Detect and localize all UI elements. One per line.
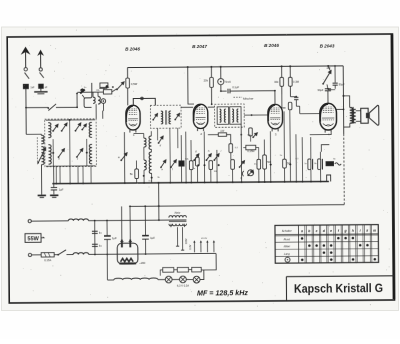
IF1 trimmer right — [174, 113, 179, 120]
heater wire d — [200, 270, 204, 280]
IF1 coil B — [169, 111, 171, 124]
wire pot top — [328, 66, 330, 70]
svg-text:B 2043: B 2043 — [320, 44, 335, 49]
RF coupling loop — [101, 99, 106, 104]
table row line 2 — [275, 240, 378, 243]
svg-text:h: h — [352, 229, 354, 233]
table column line 6 — [341, 225, 343, 263]
antenna A2 series cap — [39, 84, 44, 88]
tuner coil L2 — [89, 122, 92, 137]
mains terminal N — [28, 253, 31, 256]
mains wire top — [31, 220, 68, 222]
fuse 0,15A — [41, 253, 54, 258]
resistor af3 — [257, 159, 261, 169]
junction extra e — [76, 93, 78, 95]
antenna coil arrow — [37, 148, 46, 164]
junction B+ meter — [220, 66, 222, 68]
meter 5mA circle — [218, 79, 224, 85]
wire tone B — [319, 152, 321, 182]
padder arrow c — [76, 149, 83, 158]
wire x181 lower — [180, 166, 182, 182]
junction mains6 — [145, 253, 147, 255]
wire det2 — [196, 166, 198, 182]
mains terminal L — [28, 220, 31, 223]
ground symbol antenna coil — [38, 195, 46, 197]
padder arrow b — [58, 149, 65, 158]
svg-text:0,15A: 0,15A — [44, 258, 51, 262]
resistor det1 — [189, 161, 193, 170]
junction tuner mid right — [86, 152, 88, 154]
heater wire c — [186, 278, 193, 280]
resistor 0,3M — [288, 77, 292, 86]
svg-text:20k: 20k — [204, 79, 209, 83]
antenna A1 jack circle — [24, 68, 27, 71]
tube V4 B2043 — [320, 103, 337, 130]
lamp resistor box 3 — [192, 267, 202, 272]
transformer secondary — [169, 224, 187, 226]
resistor LW — [218, 133, 226, 137]
earth terminal bar — [34, 92, 47, 94]
wire OT feed — [343, 96, 349, 108]
filter cap 5n upper — [92, 231, 98, 233]
wire V2 to IF2 — [208, 106, 215, 108]
antenna A1 switch — [25, 73, 30, 79]
wire tone A — [310, 137, 312, 181]
heater wire a — [158, 279, 165, 281]
junction extra j — [258, 181, 260, 183]
lamp resistor box 1 — [163, 268, 174, 273]
output transformer primary — [350, 108, 353, 124]
wire x186 — [185, 132, 187, 183]
RF cluster left bend — [84, 83, 92, 108]
wire V2 anode — [188, 67, 194, 104]
tone cap block — [326, 162, 334, 166]
mains tap 110 — [181, 227, 184, 250]
svg-text:1µF: 1µF — [59, 188, 64, 192]
svg-text:0,5M: 0,5M — [131, 82, 138, 86]
tuner bottom wire — [46, 165, 95, 167]
svg-text:1µF: 1µF — [150, 236, 155, 240]
svg-text:30µF: 30µF — [317, 88, 323, 92]
wire V3 cathode — [269, 131, 271, 182]
svg-text:b: b — [308, 229, 310, 233]
junction extra d — [295, 96, 297, 98]
wire AF to V4 grid — [300, 113, 320, 115]
junction rect out — [144, 205, 146, 207]
wire RF coils down to tuner box — [96, 103, 103, 118]
osc trimmer d — [158, 136, 164, 144]
table contact dot — [315, 244, 318, 247]
coupling cap 0,1uF — [221, 89, 230, 94]
scan speckle noise — [12, 29, 390, 307]
heater tap 4 — [213, 240, 215, 252]
wire pot bottom — [326, 84, 329, 88]
mains switch — [57, 250, 66, 256]
junction mains5 — [106, 253, 108, 255]
line filter vertical — [94, 221, 96, 255]
wire OT to speaker top — [356, 110, 361, 112]
svg-text:0,15M: 0,15M — [247, 150, 254, 153]
resistor af5 — [283, 159, 287, 168]
table header underline — [275, 234, 378, 236]
tuner pack dashed box — [45, 119, 97, 167]
junction bus — [82, 183, 84, 185]
switch arrow det3 — [213, 154, 219, 161]
svg-text:0,3M: 0,3M — [293, 80, 299, 84]
junction extra n — [310, 181, 312, 183]
wire corner top right — [99, 86, 107, 88]
resistor 30k — [280, 77, 284, 86]
wire IF3b drop — [289, 66, 291, 77]
RF coil stubs — [93, 92, 98, 97]
heater tap 2 — [200, 240, 202, 252]
mains choke top — [68, 219, 88, 221]
wave switch black wedges — [80, 88, 86, 94]
svg-text:Lang: Lang — [284, 252, 290, 256]
svg-text:Rund: Rund — [284, 237, 291, 241]
antenna A1 series cap — [23, 84, 28, 89]
wire x181 upper — [180, 135, 182, 161]
output transformer secondary — [353, 109, 356, 122]
osc coil L6 lower — [149, 152, 152, 173]
mains wire bottom c — [89, 253, 216, 254]
wire x290 — [289, 110, 292, 181]
wire resistor stubs — [136, 160, 138, 182]
wire det4 — [210, 170, 212, 183]
mains choke bottom — [73, 253, 89, 255]
wire det top — [250, 136, 252, 142]
svg-text:Mischer: Mischer — [243, 96, 255, 100]
junction af — [289, 163, 291, 165]
junction det — [251, 114, 253, 116]
resistor 0,5M — [126, 78, 130, 88]
rectifier anode lead 1 — [121, 206, 123, 239]
junction bus — [185, 182, 187, 184]
tuner coil L1 — [48, 123, 51, 138]
table contact dot — [352, 258, 355, 261]
junction Bplus — [158, 205, 160, 207]
junction mains3 — [158, 219, 160, 221]
osc switch a — [118, 153, 127, 161]
heater wire left — [107, 279, 113, 281]
switch arrow vol — [239, 161, 245, 168]
resistor af4 50k — [263, 155, 267, 169]
table contact dot — [366, 244, 369, 247]
junction B+ IF3a — [281, 65, 283, 67]
dark trimmer block — [179, 161, 184, 166]
trimmer cap a1 — [52, 124, 58, 132]
table column line 9 — [363, 225, 365, 263]
resistor 50k box — [103, 90, 111, 94]
wire V1 cathode drop — [123, 132, 125, 183]
junction bus — [55, 183, 57, 185]
antenna A1 arrow — [21, 47, 31, 68]
resistor 20k — [210, 77, 214, 87]
wire up to RF coil group — [76, 93, 78, 107]
antenna A2 switch — [40, 72, 44, 77]
svg-text:B 2047: B 2047 — [192, 44, 207, 49]
junction cath — [270, 164, 272, 166]
table contact dot — [323, 251, 326, 254]
junction grid circle — [141, 97, 144, 100]
tuner coil L4 — [89, 144, 92, 164]
junction vol — [240, 134, 242, 136]
junction extra h — [216, 181, 218, 183]
junction extra c — [274, 90, 276, 92]
svg-text:Schalter: Schalter — [282, 229, 292, 233]
wire V4 anode — [336, 108, 343, 110]
heater return corner — [201, 253, 216, 270]
IF1 coil A — [161, 111, 163, 124]
junction extra m — [295, 181, 297, 183]
smoothing cap 1uF right — [142, 236, 149, 240]
table column line 8 — [356, 225, 358, 263]
switch arrow det1 — [193, 154, 199, 161]
speaker magnet — [361, 108, 369, 123]
wire box to switch — [112, 89, 117, 92]
IF2 winding box B — [230, 107, 241, 125]
junction tuner mid left — [52, 152, 54, 154]
table column line 10 — [370, 225, 372, 263]
detector resistor — [288, 102, 292, 109]
volume pot circle — [247, 170, 253, 176]
wave switch tick — [82, 95, 84, 98]
wire tuner drop — [69, 167, 71, 184]
wire to V1 anode — [127, 88, 129, 105]
junction extra a — [211, 103, 213, 105]
wire coil to ground — [40, 165, 42, 195]
transformer sec leads — [171, 224, 185, 228]
resistor 5k — [135, 169, 139, 179]
wire cap link — [328, 89, 335, 91]
table column line 1 — [305, 225, 307, 263]
wire OT bottom — [344, 123, 350, 127]
table contact dot — [330, 244, 333, 247]
junction bus — [124, 182, 126, 184]
svg-text:50µF: 50µF — [339, 82, 345, 86]
wire LW right — [227, 135, 231, 144]
wire tuner drop — [90, 166, 92, 183]
wire x241 volume — [240, 124, 242, 182]
IF2 to V3 wire — [244, 114, 268, 116]
junction mains2 — [106, 220, 108, 222]
power rating box 55W — [25, 234, 41, 243]
svg-text:55W: 55W — [27, 236, 39, 242]
osc trimmer f — [170, 160, 176, 168]
table row lamp symbol — [285, 257, 290, 262]
wire fuse to switch — [54, 254, 58, 256]
junction pot cap — [327, 88, 329, 90]
table contact dot — [323, 244, 326, 247]
wire V3 grid cap — [274, 91, 276, 105]
junction bus — [270, 181, 272, 183]
table contact dot — [301, 237, 304, 240]
wire OT to speaker bottom — [356, 120, 361, 122]
lamp box left stub — [160, 270, 163, 276]
wire det links — [282, 94, 300, 114]
lamp resistor box 2 — [177, 267, 188, 272]
title block box — [286, 276, 394, 301]
volume pot slanted — [322, 71, 331, 85]
IF1 core lines — [165, 110, 166, 124]
IF2 coil B1 — [232, 109, 234, 122]
wire af1 — [230, 153, 232, 160]
resistor 20k box — [100, 83, 108, 88]
table outer box — [275, 225, 379, 264]
trimmer cap a3 — [75, 123, 81, 132]
capacitor 1uF to ground — [51, 188, 57, 195]
antenna A2 stem — [40, 88, 42, 91]
svg-text:Mittel: Mittel — [284, 244, 291, 248]
rectifier envelope — [117, 243, 138, 264]
B+ dashed continuation — [343, 134, 346, 205]
rectifier anode lead 2 — [129, 206, 131, 239]
svg-text:LW: LW — [220, 129, 224, 133]
filter cap 5n lower — [92, 244, 98, 246]
dial lamp 3 — [193, 276, 200, 283]
tuner inner wire left — [52, 139, 54, 166]
table contact dot — [301, 259, 304, 262]
junction extra g — [204, 182, 206, 184]
wire osc coil links — [134, 131, 152, 183]
junction B+ screen — [210, 66, 212, 68]
svg-text:110V: 110V — [189, 244, 192, 250]
svg-text:m: m — [373, 229, 376, 233]
svg-text:5mA: 5mA — [225, 80, 231, 84]
svg-text:30k: 30k — [274, 80, 279, 84]
tube V1 B2046 — [126, 105, 140, 130]
heater tap 3 — [206, 240, 208, 252]
table column line 2 — [312, 225, 314, 263]
junction bus — [69, 183, 71, 185]
B+ right corner — [342, 66, 345, 134]
heater tap 1 — [193, 240, 195, 252]
right heavy binding bar — [392, 34, 394, 298]
junction blob — [106, 85, 109, 88]
RF coil Lb — [98, 97, 100, 104]
wire 0,3M down — [289, 86, 291, 96]
IF1 trimmer left — [152, 114, 157, 121]
wire tuner to cap — [53, 166, 55, 187]
ground symbol cap — [50, 195, 58, 197]
wire IF3a drop — [281, 66, 283, 77]
junction extra o — [320, 181, 322, 183]
wire switch to RF coils — [56, 106, 77, 108]
tuner coil L3 — [48, 145, 51, 165]
IF1 dashed box — [150, 105, 181, 128]
switch arrow S2 — [116, 82, 124, 91]
junction extra l — [284, 181, 286, 183]
tone RC pair B — [318, 159, 323, 170]
osc trimmer e — [160, 160, 166, 168]
lamp box links — [174, 269, 192, 271]
svg-text:a: a — [301, 229, 303, 233]
osc coil L5 lower — [144, 160, 146, 170]
wire avc down — [103, 87, 105, 89]
rectifier filament — [119, 258, 136, 263]
heater wire b — [172, 278, 179, 280]
cap lead right — [144, 206, 146, 254]
wire screen to IF2 — [211, 87, 213, 104]
transformer core — [169, 220, 187, 222]
junction — [143, 175, 145, 177]
cap 50uF branch — [332, 65, 337, 89]
svg-text:MF = 128,5 kHz: MF = 128,5 kHz — [197, 288, 248, 297]
bus end step — [327, 175, 331, 182]
wire cap to V3 grid — [230, 90, 275, 92]
svg-text:c: c — [316, 229, 318, 233]
IF1 drops — [157, 128, 178, 183]
tuner inner wire right — [86, 139, 88, 166]
transformer primary — [169, 216, 187, 218]
junction antenna wire — [25, 107, 27, 109]
detector cap — [294, 97, 298, 106]
svg-text:Netz: Netz — [174, 211, 180, 215]
dial lamp 2 — [179, 276, 186, 283]
wire antenna elbow — [26, 134, 41, 135]
B+ distribution line — [130, 205, 344, 207]
resistor det top — [249, 128, 253, 136]
drawing border frame — [7, 34, 394, 303]
wire af4 — [263, 139, 265, 181]
heater choke — [114, 278, 158, 280]
wire af3 — [258, 169, 260, 182]
junction rect — [129, 205, 131, 207]
junction — [112, 86, 114, 88]
junction RF input — [76, 106, 78, 108]
speaker pole — [366, 113, 369, 117]
junction bus — [232, 181, 234, 183]
cap lead left — [106, 221, 108, 280]
tuner inner wire mid — [69, 120, 71, 166]
wire to V4 top cap — [327, 91, 329, 104]
junction mains4 — [94, 254, 96, 256]
svg-text:220V: 220V — [185, 238, 188, 244]
table contact dot — [330, 258, 333, 261]
svg-text:C: C — [240, 176, 242, 180]
wire antenna to band switch — [26, 106, 48, 108]
antenna A2 arrow — [37, 50, 44, 68]
arrow 55W — [41, 237, 44, 238]
tube V2 B2047 — [193, 104, 208, 128]
mains wire top b — [88, 219, 168, 222]
switch arrow det top — [252, 133, 257, 138]
wire tuner drop — [55, 167, 57, 184]
OT core lines — [352, 107, 353, 124]
dial lamp 1 — [165, 276, 172, 283]
svg-text:B 2046: B 2046 — [264, 43, 279, 48]
RF cluster main wire — [77, 91, 103, 93]
wire det1 — [190, 140, 192, 182]
table row line 4 — [275, 255, 378, 258]
junction anode — [343, 108, 345, 110]
junction bus — [302, 181, 304, 183]
B+ bus — [128, 66, 344, 68]
mains tap 220 — [176, 227, 179, 246]
wire af2 — [232, 169, 234, 182]
svg-text:6,3 V 0,3A: 6,3 V 0,3A — [177, 283, 189, 287]
pickup curve — [242, 171, 244, 176]
wire LW left — [208, 134, 218, 136]
IF1 output wire — [181, 106, 193, 108]
wire tuner drop — [77, 166, 79, 183]
tube V1 grid cap wire — [133, 98, 155, 105]
mains wire bottom b — [66, 254, 73, 256]
wire tuner drop — [82, 166, 84, 183]
IF2 coil B2 — [237, 109, 239, 122]
svg-text:~200: ~200 — [139, 261, 146, 265]
junction extra k — [264, 181, 266, 183]
